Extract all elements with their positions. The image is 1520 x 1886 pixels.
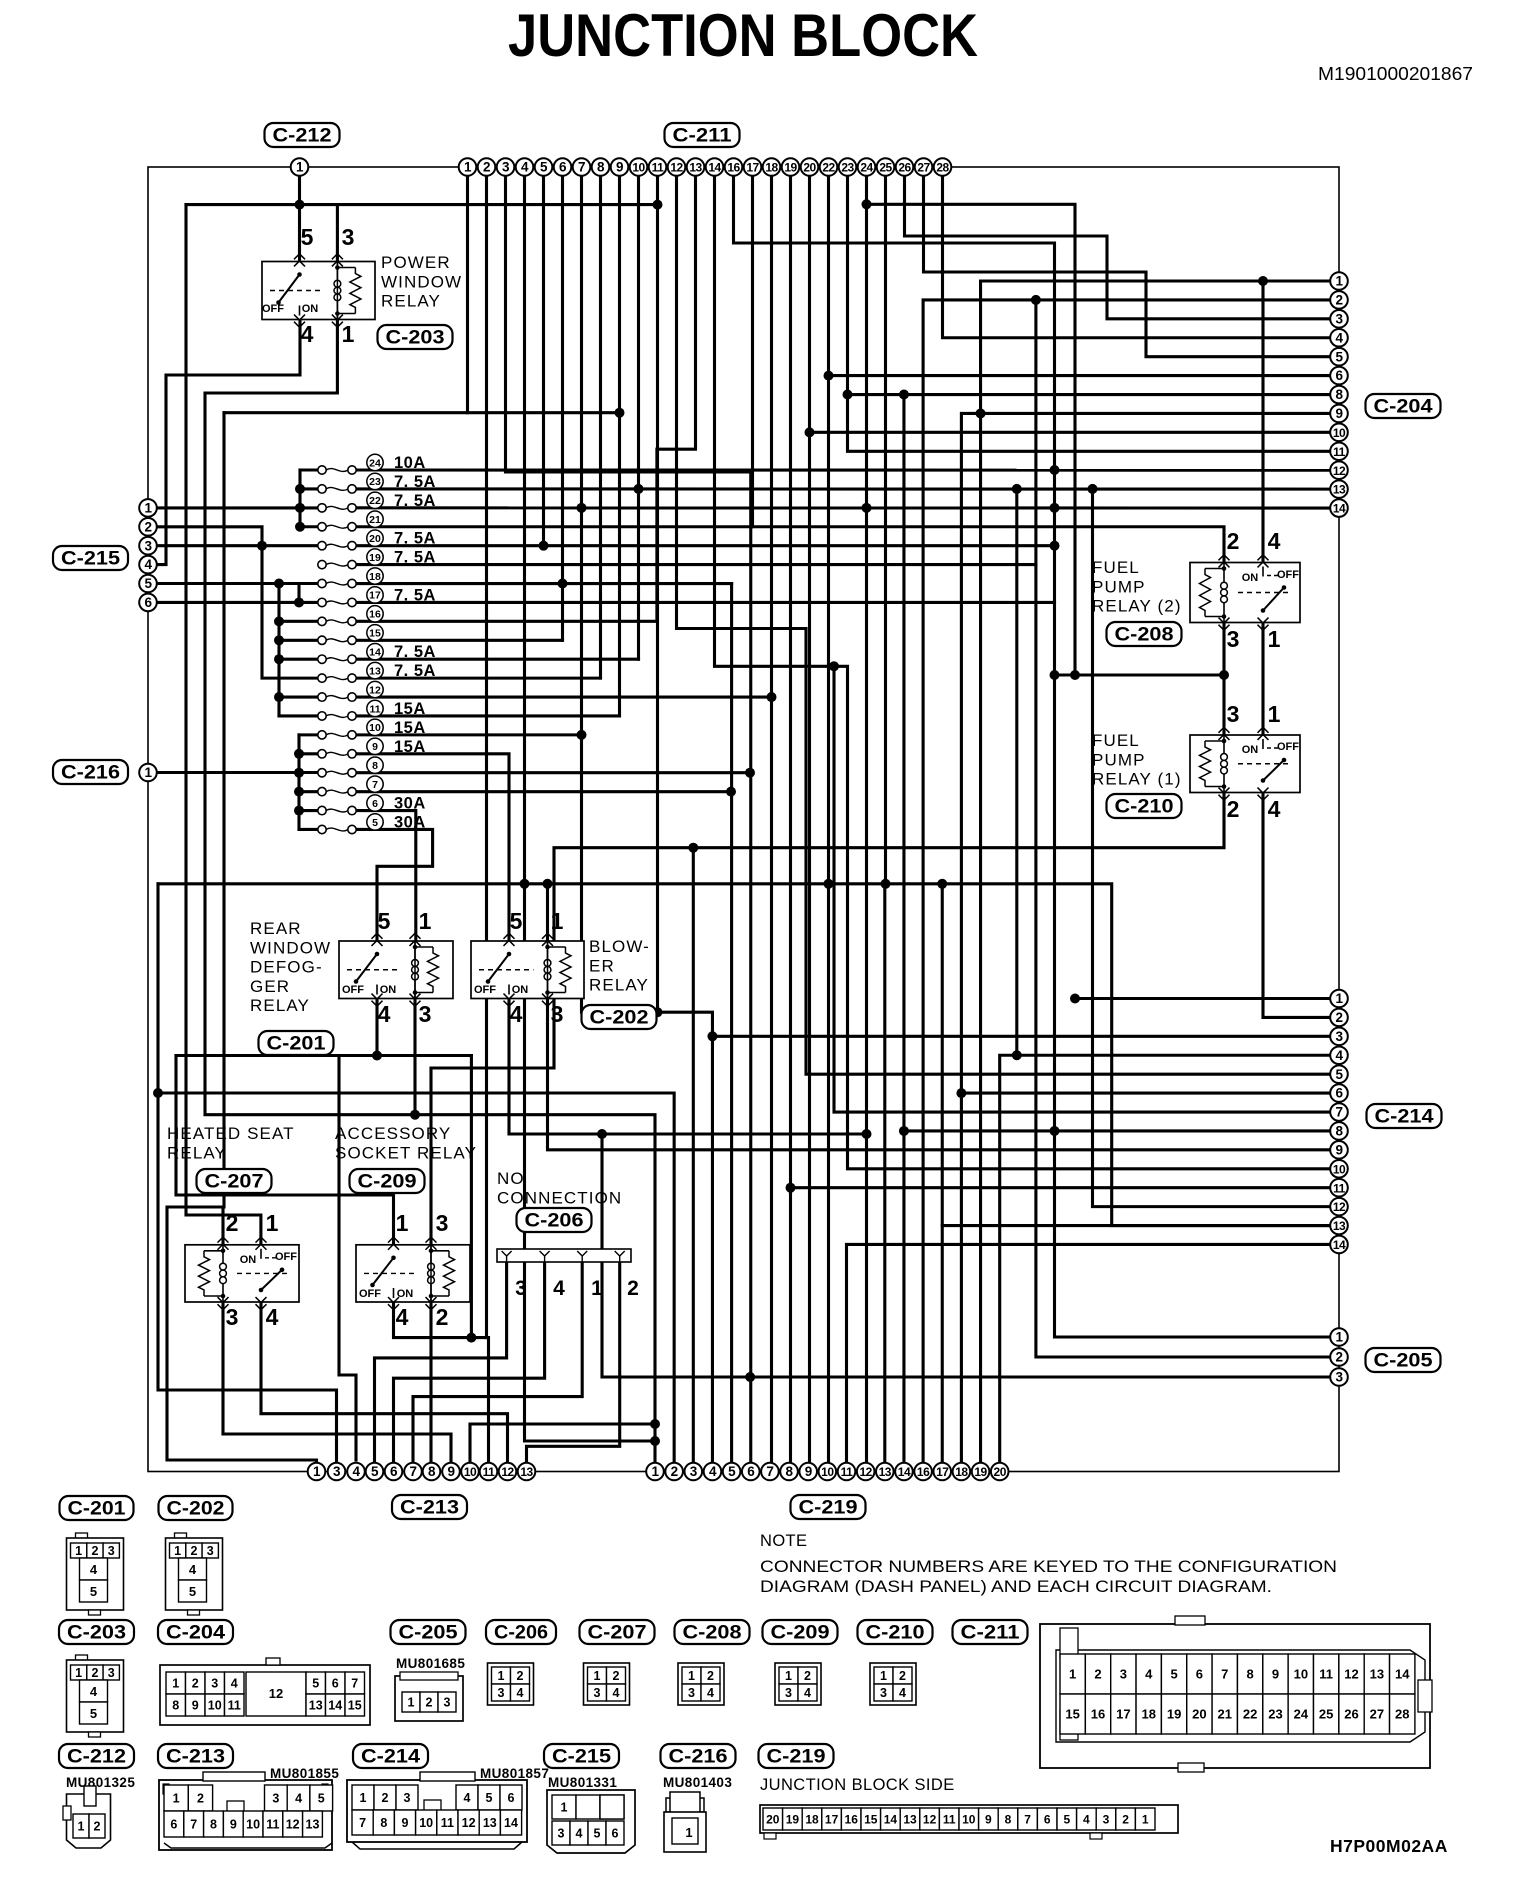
fuse 20 7. 5A [318,530,436,550]
wire C-211.4 down to C-219.1 wire [525,167,656,1441]
label C-206 [517,1208,592,1232]
fuse 18 [318,568,383,588]
svg-text:C-209: C-209 [771,1623,830,1644]
svg-text:2: 2 [226,1210,239,1236]
svg-text:C-210: C-210 [1115,797,1174,818]
wire C-214.13 row [942,1224,1339,1227]
svg-text:2: 2 [426,1696,433,1710]
label C-212 [265,123,340,147]
wire C-215.6 to fuse 17 [157,601,322,604]
svg-text:1: 1 [396,1210,409,1236]
connector C-211 terminals [459,158,477,176]
svg-text:11: 11 [943,1813,956,1827]
svg-text:ACCESSORY: ACCESSORY [335,1124,451,1143]
svg-text:11: 11 [228,1699,241,1713]
wire bus C-211.11 / C-212 / heated seat relay pin 1 [186,203,658,206]
svg-text:6: 6 [1335,368,1343,383]
svg-text:18: 18 [765,161,778,175]
svg-text:3: 3 [551,1001,564,1027]
wire C-219.2 to left nest [158,884,674,1472]
svg-text:6: 6 [747,1464,755,1479]
svg-text:13: 13 [879,1465,892,1479]
svg-text:13: 13 [1333,483,1346,497]
wire C-215.2 to fuse 13 [157,527,322,678]
svg-text:C-219: C-219 [799,1498,858,1519]
svg-text:6: 6 [559,160,567,175]
svg-text:2: 2 [91,1666,98,1680]
svg-text:1: 1 [498,1669,505,1683]
wire blower relay pin 1 up [546,884,549,941]
fuse 13 7. 5A [318,662,436,682]
connector drawing C-208 [678,1663,724,1705]
svg-text:3: 3 [226,1304,239,1330]
fuse 5 output to defogger relay pin 5 [352,829,433,941]
svg-text:5: 5 [312,1677,319,1691]
svg-text:13: 13 [483,1816,497,1830]
svg-text:6: 6 [372,798,378,810]
svg-text:2: 2 [144,519,151,534]
svg-text:4: 4 [464,1791,471,1805]
svg-text:8: 8 [210,1818,217,1832]
svg-text:1: 1 [1335,991,1343,1006]
wire C-219.17 up to y884 bus [941,884,944,1472]
svg-text:7: 7 [190,1818,197,1832]
svg-text:4: 4 [804,1686,811,1700]
svg-text:C-203: C-203 [67,1623,126,1644]
svg-text:7. 5A: 7. 5A [394,492,436,510]
fuse bus A x=300 [298,470,301,527]
svg-text:9: 9 [805,1464,812,1479]
svg-text:3: 3 [594,1686,601,1700]
label C-210 bottom [858,1620,933,1644]
svg-text:6: 6 [1196,1667,1203,1682]
fuse 15 output to C-211.6 [352,639,563,642]
svg-text:25: 25 [1319,1707,1333,1722]
svg-text:2: 2 [382,1791,389,1805]
label C-215 [53,546,128,570]
svg-text:4: 4 [709,1464,717,1479]
connector C-206 NO CONNECTION bar [497,1249,631,1262]
svg-text:5: 5 [378,908,391,934]
svg-text:3: 3 [333,1464,341,1479]
svg-text:3: 3 [690,1464,698,1479]
svg-text:21: 21 [369,514,381,526]
svg-text:7. 5A: 7. 5A [394,473,436,491]
svg-text:7: 7 [766,1464,773,1479]
label C-219 bottom2 [759,1744,834,1768]
svg-text:12: 12 [462,1816,476,1830]
svg-text:4: 4 [1335,1048,1343,1063]
svg-text:13: 13 [689,161,702,175]
svg-text:14: 14 [504,1816,518,1830]
svg-text:OFF: OFF [1277,741,1299,753]
svg-text:4: 4 [1083,1813,1090,1827]
svg-text:9: 9 [1335,406,1342,421]
junction C212 wire [295,200,305,210]
svg-text:8: 8 [597,160,605,175]
svg-text:8: 8 [428,1464,436,1479]
branch C-211.24 to fuel pump junction [867,204,1076,675]
svg-text:16: 16 [727,161,740,175]
svg-text:11: 11 [483,1465,496,1479]
svg-text:RELAY (2): RELAY (2) [1092,597,1182,616]
fuse 10 15A [318,719,426,739]
fuse 22 output to C-204.14 [352,506,1339,509]
svg-text:12: 12 [1344,1667,1358,1682]
svg-text:13: 13 [903,1813,917,1827]
svg-text:1: 1 [78,1820,85,1834]
label C-209 [350,1169,425,1193]
svg-text:NOTE: NOTE [760,1532,807,1550]
svg-text:1: 1 [651,1464,659,1479]
svg-text:8: 8 [1335,387,1343,402]
fuse 9 output to blower relay pin 5 [352,754,509,941]
relay C-208 FUEL PUMP RELAY 2 [1190,528,1300,652]
wire C-211.28 to C-204.4 [943,167,1340,338]
svg-text:5: 5 [372,817,378,829]
relay C-203 POWER WINDOW RELAY [262,224,375,347]
fuse 23 output to C-204.13 [352,487,1339,490]
svg-text:11: 11 [1333,1181,1346,1195]
svg-text:4: 4 [295,1792,302,1806]
svg-text:ER: ER [589,956,615,975]
wire C-219.19 to C-204.1 [981,281,1339,1472]
svg-text:C-204: C-204 [166,1623,225,1644]
svg-text:24: 24 [860,161,873,175]
wire C-219.13 up to y884 bus [883,884,886,1472]
svg-text:SOCKET RELAY: SOCKET RELAY [335,1143,477,1162]
svg-text:25: 25 [879,161,892,175]
svg-text:12: 12 [1333,464,1346,478]
svg-text:10: 10 [962,1813,976,1827]
label C-216 [53,760,128,784]
connector C-214 terminals [1330,990,1348,1008]
svg-text:24: 24 [1294,1707,1309,1722]
wire heated seat pin 4 to C-213.12 [261,1302,508,1472]
wire blower relay pin 3 to C-214.9 [548,999,1340,1150]
svg-text:1: 1 [266,1210,279,1236]
svg-text:1: 1 [685,1825,692,1840]
svg-text:14: 14 [328,1699,342,1713]
svg-text:1: 1 [174,1544,181,1558]
svg-text:C-205: C-205 [1374,1351,1433,1372]
wire C-211.5 down to fuse 20 row [542,167,545,546]
label C-211 bottom [953,1620,1028,1644]
connector C-216 terminal [139,764,157,782]
svg-text:8: 8 [1005,1813,1012,1827]
svg-text:12: 12 [501,1465,514,1479]
svg-text:4: 4 [144,557,152,572]
svg-text:C-204: C-204 [1374,397,1433,418]
svg-text:3: 3 [1335,1370,1343,1385]
svg-text:14: 14 [1395,1667,1410,1682]
svg-text:C-216: C-216 [669,1747,728,1768]
fuse 19 output [352,563,1036,566]
svg-text:3: 3 [1227,626,1240,652]
svg-text:8: 8 [372,760,378,772]
fuse 21 output to relay C-208 pin 2 [352,527,1224,563]
svg-text:3: 3 [1120,1667,1127,1682]
svg-text:11: 11 [266,1818,279,1832]
svg-text:2: 2 [671,1464,678,1479]
svg-text:C-208: C-208 [1115,625,1174,646]
svg-text:4: 4 [378,1001,391,1027]
svg-text:17: 17 [369,590,381,602]
svg-text:C-202: C-202 [167,1499,225,1520]
svg-text:ON: ON [240,1254,257,1266]
svg-text:C-214: C-214 [361,1747,420,1768]
wire C-211.22 to C-219.10 [827,167,830,1472]
svg-text:GER: GER [250,977,290,996]
wire C-214.6 row [961,1092,1339,1095]
svg-text:4: 4 [1268,528,1281,554]
svg-text:ON: ON [397,1288,414,1300]
label C-207 bottom [580,1620,655,1644]
svg-text:11: 11 [652,161,665,175]
relay C-210 FUEL PUMP RELAY 1 [1190,701,1300,822]
label C-216 bottom [661,1744,736,1768]
connector C-212 terminal [291,158,309,176]
svg-text:8: 8 [1247,1667,1254,1682]
connector drawing C-211 large [1040,1616,1432,1772]
wire C-214.3 row [712,1035,1339,1038]
svg-text:26: 26 [1344,1707,1358,1722]
svg-text:6: 6 [170,1818,177,1832]
svg-text:7. 5A: 7. 5A [394,643,436,661]
svg-text:14: 14 [1333,1238,1346,1252]
svg-text:2: 2 [197,1792,204,1806]
fuel pump junction y=675 [1055,673,1225,676]
connector drawing C-210 [870,1663,916,1705]
junction C-215.3 [257,541,267,551]
svg-text:7: 7 [1024,1813,1031,1827]
svg-text:5: 5 [1063,1813,1070,1827]
wire C-211.7 to C-219.4 [582,167,713,1472]
svg-text:ON: ON [1242,744,1259,756]
svg-text:C-210: C-210 [866,1623,925,1644]
svg-text:1: 1 [75,1544,82,1558]
wire C-211.20 to C-219.9 [808,167,811,1472]
svg-text:5: 5 [1170,1667,1177,1682]
junction switch bus [1258,276,1268,286]
svg-text:C-203: C-203 [386,328,445,349]
wire C-215.1 to fuse 22 [157,506,322,509]
label C-201 [259,1031,334,1055]
wire C-219.18 to C-204.9 [961,413,1339,1471]
fuse 5 30A [318,813,426,833]
svg-text:5: 5 [1335,349,1343,364]
svg-text:1: 1 [408,1696,415,1710]
wire C-214.7 from branch x=834 [834,666,1339,1112]
svg-text:H7P00M02AA: H7P00M02AA [1330,1836,1448,1856]
fuse 17 output [352,601,1055,604]
svg-text:4: 4 [266,1304,279,1330]
svg-text:1: 1 [785,1669,792,1683]
svg-text:9: 9 [616,160,623,175]
junction on C-204.9 row [976,408,986,418]
wire accessory relay pin 3 to relay C-210 pin 2 [431,793,1224,1245]
svg-text:22: 22 [369,495,381,507]
svg-text:1: 1 [1142,1813,1149,1827]
svg-text:WINDOW: WINDOW [381,272,462,291]
svg-text:4: 4 [396,1304,409,1330]
svg-text:4: 4 [352,1464,360,1479]
label C-213 [392,1495,467,1519]
svg-text:OFF: OFF [342,984,364,996]
connector C-219 terminals [646,1463,664,1481]
svg-text:14: 14 [708,161,721,175]
svg-text:6: 6 [508,1791,515,1805]
fuse 10 output [352,733,582,736]
svg-text:3: 3 [436,1210,449,1236]
svg-text:1: 1 [419,908,432,934]
svg-text:RELAY: RELAY [167,1143,227,1162]
svg-text:3: 3 [444,1696,451,1710]
svg-text:9: 9 [192,1699,199,1713]
svg-text:1: 1 [75,1666,82,1680]
svg-text:1: 1 [172,1677,179,1691]
svg-text:4: 4 [553,1277,565,1300]
svg-text:C-211: C-211 [961,1623,1021,1644]
connector C-204 terminals [1330,272,1348,290]
svg-text:22: 22 [822,161,835,175]
svg-text:4: 4 [517,1686,524,1700]
svg-text:2: 2 [1227,796,1240,822]
fuse 7 [318,776,383,796]
label C-202 [582,1005,657,1029]
wire C-219.3 up [692,848,695,1472]
connector C-205 terminals [1330,1328,1348,1346]
svg-text:4: 4 [521,160,529,175]
wire heated seat pin 3 to C-213.9 [223,1302,451,1472]
wire C-219.16 to C-204.2 [923,300,1339,1472]
svg-text:10: 10 [369,722,381,734]
svg-text:15A: 15A [394,719,426,737]
svg-text:5: 5 [301,224,314,250]
svg-text:19: 19 [369,552,381,564]
svg-text:6: 6 [390,1464,398,1479]
wire C-219.5 up to fuse 18 row [730,584,733,1472]
wire C-211.10 down [637,167,640,659]
svg-text:MU801855: MU801855 [270,1766,339,1781]
fuse 11 15A [318,700,426,720]
svg-text:10: 10 [632,161,645,175]
svg-text:27: 27 [917,161,930,175]
svg-text:26: 26 [898,161,911,175]
svg-text:3: 3 [207,1544,214,1558]
svg-text:C-201: C-201 [267,1034,326,1055]
svg-text:9: 9 [1272,1667,1279,1682]
junction C-205.2 branch [1031,295,1041,305]
wire C-213.10 up [470,1424,655,1472]
fuse 16 output to C-211.13 [352,167,696,621]
svg-text:3: 3 [558,1827,565,1841]
label C-204 [1366,394,1441,418]
svg-text:2: 2 [1227,528,1240,554]
svg-text:23: 23 [369,476,381,488]
label C-212 bottom [59,1744,134,1768]
svg-text:13: 13 [309,1699,323,1713]
svg-text:C-211: C-211 [673,126,733,147]
svg-text:5: 5 [90,1584,97,1599]
fuse 21 [318,511,383,531]
label C-202 bottom [159,1496,233,1520]
wire heated seat pin 2 to C-213.1 [167,1207,317,1472]
wire C-219.20 to C-214.4 row [1000,1055,1339,1471]
svg-text:4: 4 [1335,330,1343,345]
svg-text:13: 13 [306,1818,320,1832]
svg-text:17: 17 [746,161,759,175]
svg-text:20: 20 [1192,1707,1206,1722]
svg-text:6: 6 [612,1827,619,1841]
svg-text:1: 1 [464,160,472,175]
svg-text:NO: NO [497,1169,525,1188]
svg-text:11: 11 [369,703,380,715]
wire C-211.8 down [599,167,602,678]
svg-text:13: 13 [1333,1219,1346,1233]
svg-text:3: 3 [404,1791,411,1805]
wire C-213.3 up [158,1093,337,1472]
svg-text:4: 4 [576,1827,583,1841]
svg-text:2: 2 [1122,1813,1129,1827]
label C-214 [1367,1104,1442,1128]
svg-text:RELAY: RELAY [381,292,441,311]
wire C-211.19 to C-219.8 [789,167,792,1472]
svg-text:4: 4 [1145,1667,1153,1682]
svg-text:4: 4 [707,1686,714,1700]
svg-text:JUNCTION BLOCK SIDE: JUNCTION BLOCK SIDE [760,1776,955,1794]
svg-text:C-206: C-206 [494,1623,548,1644]
svg-text:11: 11 [1333,445,1346,459]
label C-208 [1107,622,1182,646]
relay C-202 BLOWER RELAY [471,908,584,1027]
connector drawing C-202 [166,1533,223,1615]
svg-text:11: 11 [841,1465,854,1479]
junction C-214.3 branch [707,1031,717,1041]
fuse 24 10A [318,454,426,474]
fuse 7 output [352,790,731,793]
svg-text:3: 3 [1103,1813,1110,1827]
svg-text:10: 10 [246,1818,260,1832]
svg-text:5: 5 [486,1791,493,1805]
svg-text:M1901000201867: M1901000201867 [1318,64,1473,84]
fuse 20 output [352,544,1055,547]
junction col9 with C-211.1 wire [615,408,625,418]
wire C-211.18 to C-219.7 [770,167,773,1472]
fuse 17 7. 5A [318,586,436,606]
svg-text:10A: 10A [394,454,426,472]
svg-text:14: 14 [884,1813,898,1827]
connector drawing C-215 [547,1775,635,1853]
svg-text:19: 19 [1167,1707,1181,1722]
connector drawing C-203 [67,1655,124,1737]
svg-text:22: 22 [1243,1707,1257,1722]
svg-text:5: 5 [189,1584,196,1599]
svg-text:27: 27 [1370,1707,1384,1722]
svg-text:15A: 15A [394,738,426,756]
svg-text:4: 4 [231,1677,238,1691]
branch fuse23 to C-214.4 row junction [1015,489,1018,1055]
svg-text:16: 16 [369,609,381,621]
svg-text:3: 3 [515,1277,527,1300]
svg-text:23: 23 [841,161,854,175]
label C-209 bottom [763,1620,838,1644]
label C-201 bottom [60,1496,134,1520]
wire defogger relay pin 4 to C-213.4 [375,999,378,1056]
svg-text:ON: ON [302,303,319,315]
svg-text:15: 15 [1065,1707,1079,1722]
svg-text:23: 23 [1268,1707,1282,1722]
